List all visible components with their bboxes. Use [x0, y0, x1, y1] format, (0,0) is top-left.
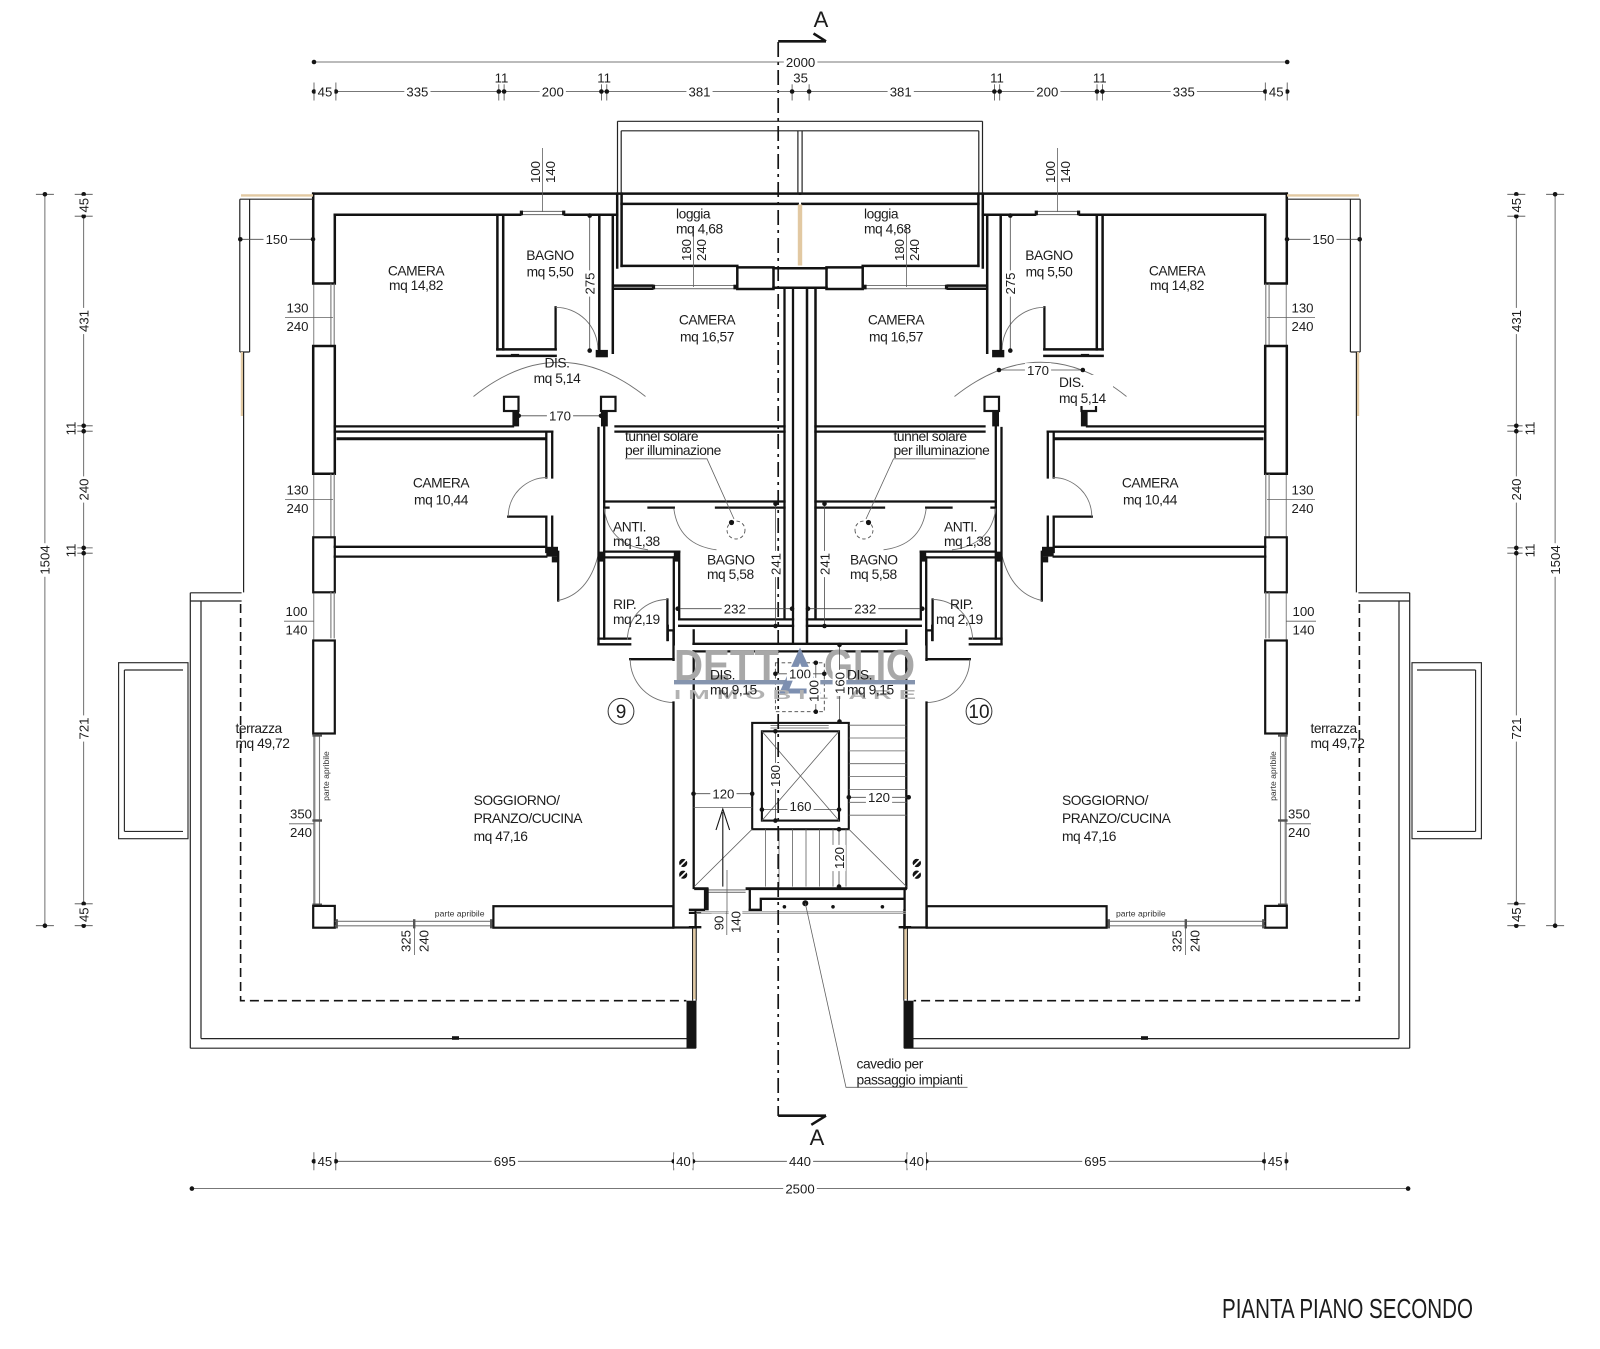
svg-text:mq 5,50: mq 5,50 — [1026, 265, 1073, 280]
svg-text:440: 440 — [789, 1154, 811, 1169]
svg-text:DIS.: DIS. — [710, 668, 735, 683]
svg-text:mq 49,72: mq 49,72 — [236, 736, 290, 751]
svg-text:BAGNO: BAGNO — [526, 248, 574, 263]
loggia left wall — [617, 194, 621, 268]
window 130/240 no.1 — [331, 284, 334, 347]
apartment number circles — [608, 698, 634, 724]
camera 14,82 / camera 10,44 partition — [335, 426, 552, 431]
elevator shaft — [752, 723, 849, 829]
svg-text:170: 170 — [1027, 363, 1049, 378]
top wall inner face left part — [335, 214, 617, 217]
svg-text:240: 240 — [286, 501, 308, 516]
svg-text:CAMERA: CAMERA — [413, 476, 471, 491]
svg-text:mq 2,19: mq 2,19 — [613, 612, 660, 627]
svg-text:per illuminazione: per illuminazione — [894, 443, 991, 458]
svg-text:232: 232 — [854, 602, 876, 617]
RIP south wall — [599, 639, 631, 645]
top exterior wall outer face — [313, 192, 800, 195]
svg-text:2500: 2500 — [785, 1181, 814, 1196]
svg-text:45: 45 — [318, 1154, 333, 1169]
svg-text:RIP.: RIP. — [950, 597, 973, 612]
svg-text:120: 120 — [712, 787, 734, 802]
svg-text:130: 130 — [286, 301, 308, 316]
svg-text:180: 180 — [892, 239, 907, 261]
soggiorno top wall — [335, 547, 547, 557]
svg-text:11: 11 — [597, 70, 611, 85]
svg-text:CAMERA: CAMERA — [388, 264, 446, 279]
party wall camera 16,57 east — [785, 289, 794, 644]
svg-text:mq 16,57: mq 16,57 — [680, 330, 734, 345]
bagno 5,50 bottom wall — [497, 349, 555, 356]
balcony railing above loggia — [618, 121, 801, 193]
camera 10,44 right wall — [546, 432, 552, 552]
svg-text:DIS.: DIS. — [1059, 375, 1084, 390]
loggia floor edge — [622, 265, 738, 268]
up arrow — [722, 812, 724, 887]
bagno 5,58 door arc — [674, 509, 717, 550]
svg-text:A: A — [814, 7, 829, 32]
svg-text:150: 150 — [1312, 232, 1334, 247]
svg-text:140: 140 — [728, 911, 743, 933]
svg-text:130: 130 — [1291, 301, 1313, 316]
svg-text:381: 381 — [890, 84, 912, 99]
svg-text:140: 140 — [1058, 161, 1073, 183]
svg-text:terrazza: terrazza — [236, 721, 283, 736]
svg-text:45: 45 — [318, 84, 333, 99]
left wall pier 1 — [313, 537, 335, 592]
svg-text:CAMERA: CAMERA — [679, 313, 737, 328]
svg-text:120: 120 — [832, 847, 847, 869]
svg-text:11: 11 — [63, 544, 78, 558]
ANTI south wall — [604, 552, 679, 558]
svg-text:240: 240 — [77, 478, 92, 500]
svg-text:mq 9,15: mq 9,15 — [710, 683, 757, 698]
svg-text:431: 431 — [77, 310, 92, 332]
svg-text:CAMERA: CAMERA — [1149, 264, 1207, 279]
svg-text:45: 45 — [1509, 907, 1524, 922]
svg-text:ANTI.: ANTI. — [944, 520, 977, 535]
hinge dots right side — [913, 859, 921, 867]
svg-text:240: 240 — [1187, 930, 1202, 952]
svg-text:275: 275 — [1003, 272, 1018, 294]
svg-text:200: 200 — [542, 84, 564, 99]
window 130/240 no.2 — [331, 474, 334, 537]
svg-text:160: 160 — [832, 672, 847, 694]
stair treads right flight — [849, 725, 907, 815]
svg-text:ANTI.: ANTI. — [613, 520, 646, 535]
svg-text:mq 1,38: mq 1,38 — [944, 534, 991, 549]
svg-text:45: 45 — [77, 907, 92, 922]
svg-text:240: 240 — [416, 930, 431, 952]
cavedio shaft walls — [807, 289, 816, 644]
svg-text:1504: 1504 — [1548, 545, 1563, 574]
svg-text:mq 14,82: mq 14,82 — [1150, 278, 1204, 293]
svg-text:tunnel solare: tunnel solare — [625, 429, 699, 444]
svg-text:1504: 1504 — [38, 545, 53, 574]
door jambs of 170 opening — [504, 397, 519, 411]
svg-text:100: 100 — [528, 161, 543, 183]
left wall hollow segment 2 — [313, 346, 335, 474]
svg-text:325: 325 — [398, 930, 413, 952]
svg-text:DIS.: DIS. — [847, 668, 872, 683]
svg-text:140: 140 — [543, 161, 558, 183]
svg-text:140: 140 — [1292, 623, 1314, 638]
bottom-left corner — [313, 906, 335, 928]
svg-text:45: 45 — [1268, 1154, 1283, 1169]
svg-text:170: 170 — [549, 409, 571, 424]
section line A-A — [777, 42, 779, 1116]
svg-text:240: 240 — [1291, 319, 1313, 334]
svg-text:passaggio impianti: passaggio impianti — [857, 1073, 964, 1088]
svg-text:11: 11 — [1093, 70, 1107, 85]
entry door of unit — [630, 658, 673, 660]
CENTRAL CORE — [690, 7, 968, 1150]
svg-text:tunnel solare: tunnel solare — [894, 429, 968, 444]
svg-text:240: 240 — [1291, 501, 1313, 516]
svg-text:241: 241 — [817, 553, 832, 575]
first tread left — [694, 807, 753, 809]
svg-text:200: 200 — [1036, 84, 1058, 99]
svg-text:335: 335 — [406, 84, 428, 99]
svg-text:180: 180 — [768, 765, 783, 787]
svg-text:35: 35 — [793, 70, 808, 85]
svg-text:mq 49,72: mq 49,72 — [1311, 736, 1365, 751]
left wall pier 2 — [313, 641, 335, 734]
svg-text:160: 160 — [789, 799, 811, 814]
svg-text:mq 16,57: mq 16,57 — [869, 330, 923, 345]
svg-text:180: 180 — [679, 239, 694, 261]
svg-text:parte apribile: parte apribile — [1268, 751, 1278, 801]
glazing 350 parte apribile — [315, 734, 320, 906]
bagno foot pier — [596, 350, 608, 357]
svg-text:45: 45 — [77, 198, 92, 213]
RIP / bagno 5,58 wall — [674, 552, 679, 645]
svg-text:BAGNO: BAGNO — [1025, 248, 1073, 263]
WATERMARK — [674, 641, 917, 702]
svg-text:PRANZO/CUCINA: PRANZO/CUCINA — [1062, 811, 1172, 826]
svg-text:11: 11 — [990, 70, 1004, 85]
entry porch lines — [750, 889, 905, 928]
svg-text:431: 431 — [1509, 310, 1524, 332]
tunnel solare symbol — [727, 521, 745, 539]
svg-text:10: 10 — [968, 702, 989, 723]
svg-text:130: 130 — [286, 483, 308, 498]
svg-text:90: 90 — [711, 916, 726, 931]
svg-text:240: 240 — [286, 319, 308, 334]
svg-text:335: 335 — [1173, 84, 1195, 99]
svg-text:SOGGIORNO/: SOGGIORNO/ — [1062, 793, 1149, 808]
svg-text:terrazza: terrazza — [1311, 721, 1358, 736]
svg-text:11: 11 — [63, 422, 78, 436]
svg-text:BAGNO: BAGNO — [707, 553, 755, 568]
svg-text:240: 240 — [907, 239, 922, 261]
left exterior wall: thin outer line through openings — [313, 194, 315, 905]
bottom glazing 325 parte apribile — [335, 921, 494, 926]
terrace-entry connector — [693, 928, 697, 1000]
winder diagonals — [694, 829, 906, 886]
svg-text:240: 240 — [1288, 825, 1310, 840]
camera 10,44 door — [508, 515, 546, 517]
bottom wall (soggiorno) — [493, 906, 673, 928]
svg-text:mq 14,82: mq 14,82 — [389, 278, 443, 293]
svg-text:PRANZO/CUCINA: PRANZO/CUCINA — [474, 811, 584, 826]
svg-text:mq 5,58: mq 5,58 — [707, 567, 754, 582]
svg-text:mq 10,44: mq 10,44 — [414, 493, 469, 508]
terrace dashed boundary — [241, 604, 687, 1001]
svg-text:cavedio per: cavedio per — [857, 1057, 924, 1072]
svg-text:mq 4,68: mq 4,68 — [676, 222, 723, 237]
camera 16,57 north wall + window 180/240 — [613, 286, 652, 289]
stair room top wall — [694, 644, 907, 652]
loggia divider beige — [798, 205, 800, 266]
svg-text:40: 40 — [676, 1154, 691, 1169]
svg-text:240: 240 — [290, 825, 312, 840]
svg-text:325: 325 — [1169, 930, 1184, 952]
svg-text:140: 140 — [285, 623, 307, 638]
svg-text:RIP.: RIP. — [613, 597, 636, 612]
svg-text:A: A — [810, 1125, 825, 1150]
svg-text:mq 47,16: mq 47,16 — [474, 829, 529, 844]
svg-text:275: 275 — [583, 272, 598, 294]
svg-text:11: 11 — [1522, 544, 1537, 558]
svg-text:DIS.: DIS. — [544, 356, 569, 371]
svg-text:parte apribile: parte apribile — [321, 751, 331, 801]
svg-text:mq 10,44: mq 10,44 — [1123, 493, 1178, 508]
bagno 5,50 window 100/140 — [520, 211, 565, 214]
svg-text:381: 381 — [688, 84, 710, 99]
svg-text:721: 721 — [77, 717, 92, 739]
camera 16,57 south wall — [616, 426, 785, 431]
svg-text:45: 45 — [1269, 84, 1284, 99]
svg-text:9: 9 — [616, 702, 627, 723]
stair room bottom wall — [694, 887, 907, 890]
svg-text:240: 240 — [1509, 478, 1524, 500]
svg-text:241: 241 — [768, 553, 783, 575]
stair west wall — [674, 651, 696, 927]
svg-text:CAMERA: CAMERA — [1122, 476, 1180, 491]
svg-text:mq 4,68: mq 4,68 — [864, 222, 911, 237]
svg-text:mq 9,15: mq 9,15 — [847, 683, 894, 698]
double-door arch to DIS 5,14 — [474, 362, 646, 396]
planter — [119, 663, 188, 839]
loggia top inner face — [622, 203, 798, 206]
svg-text:130: 130 — [1291, 483, 1313, 498]
svg-text:240: 240 — [694, 239, 709, 261]
svg-text:loggia: loggia — [676, 207, 711, 222]
svg-text:695: 695 — [494, 1154, 516, 1169]
svg-text:11: 11 — [495, 70, 509, 85]
svg-text:350: 350 — [1288, 807, 1310, 822]
svg-text:45: 45 — [1509, 198, 1524, 213]
cavedio leader — [802, 900, 808, 906]
corridor-soggiorno door — [557, 552, 559, 601]
left wall hollow segment 1 (top corner to window 130-1) — [313, 194, 335, 284]
svg-text:PIANTA PIANO SECONDO: PIANTA PIANO SECONDO — [1222, 1293, 1473, 1324]
pier between loggia window and centre — [737, 267, 773, 289]
dashed landing square — [775, 663, 824, 712]
svg-text:parte apribile: parte apribile — [435, 909, 485, 919]
svg-text:SOGGIORNO/: SOGGIORNO/ — [474, 793, 561, 808]
centre front wall band — [774, 268, 801, 288]
svg-text:2000: 2000 — [786, 55, 815, 70]
upper-left ledge — [241, 194, 313, 196]
ANTI / bagno5,58 north wall — [604, 502, 784, 508]
svg-text:parte apribile: parte apribile — [1116, 909, 1166, 919]
hinge dots at stair wall — [679, 859, 687, 867]
svg-text:mq 5,50: mq 5,50 — [527, 265, 574, 280]
RIP door — [666, 600, 668, 641]
terrace parapet — [190, 593, 696, 1048]
window 90/140 in stair wall — [709, 890, 746, 892]
bagno 5,50 left wall — [497, 215, 503, 350]
svg-text:721: 721 — [1509, 717, 1524, 739]
svg-text:per illuminazione: per illuminazione — [625, 443, 722, 458]
window 100/140 soggiorno — [331, 592, 334, 638]
svg-text:mq 47,16: mq 47,16 — [1062, 829, 1117, 844]
svg-text:100: 100 — [1292, 604, 1314, 619]
stair treads bottom flight — [766, 829, 847, 886]
svg-text:695: 695 — [1084, 1154, 1106, 1169]
APARTMENT GEOMETRY (unit 9, mirrored for unit 10) — [119, 121, 800, 1048]
svg-text:11: 11 — [1522, 422, 1537, 436]
svg-text:mq 2,19: mq 2,19 — [936, 612, 983, 627]
svg-text:100: 100 — [806, 680, 821, 702]
bagno 5,50 / camera 16,57 wall — [599, 215, 613, 353]
svg-text:100: 100 — [285, 604, 307, 619]
svg-text:350: 350 — [290, 807, 312, 822]
svg-text:BAGNO: BAGNO — [850, 553, 898, 568]
svg-text:loggia: loggia — [864, 207, 899, 222]
svg-text:120: 120 — [868, 790, 890, 805]
svg-text:CAMERA: CAMERA — [868, 313, 926, 328]
bagno 5,58 south wall — [679, 619, 793, 625]
svg-text:mq 5,58: mq 5,58 — [850, 567, 897, 582]
bagno 5,50 door — [554, 307, 556, 349]
ANTI door arc — [604, 509, 648, 550]
svg-text:150: 150 — [266, 232, 288, 247]
svg-text:mq 5,14: mq 5,14 — [534, 371, 581, 386]
svg-text:mq 5,14: mq 5,14 — [1059, 391, 1106, 406]
svg-text:232: 232 — [724, 602, 746, 617]
camera 16,57 left lower wall (ANTI/RIP west wall) — [599, 426, 605, 644]
DIS/stair west wall upper jamb — [668, 626, 694, 660]
svg-text:100: 100 — [1043, 161, 1058, 183]
svg-text:40: 40 — [909, 1154, 924, 1169]
svg-text:mq 1,38: mq 1,38 — [613, 534, 660, 549]
